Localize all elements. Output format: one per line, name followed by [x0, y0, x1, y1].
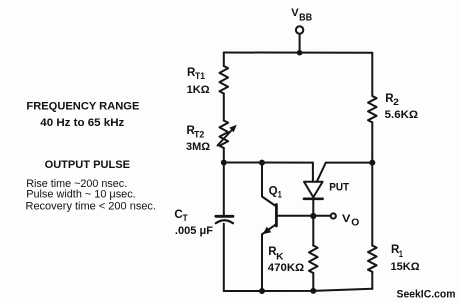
svg-text:.005 μF: .005 μF — [175, 225, 213, 237]
svg-text:BB: BB — [299, 13, 312, 24]
svg-text:V: V — [342, 213, 351, 225]
svg-text:Recovery time < 200 nsec.: Recovery time < 200 nsec. — [26, 201, 157, 213]
svg-text:2: 2 — [393, 97, 399, 107]
svg-text:O: O — [351, 217, 359, 228]
svg-text:470KΩ: 470KΩ — [268, 262, 305, 274]
svg-text:OUTPUT PULSE: OUTPUT PULSE — [45, 159, 131, 171]
svg-text:K: K — [276, 252, 284, 263]
svg-text:40 Hz to 65 kHz: 40 Hz to 65 kHz — [40, 117, 124, 129]
svg-text:T2: T2 — [194, 130, 204, 140]
svg-text:FREQUENCY RANGE: FREQUENCY RANGE — [26, 101, 140, 113]
svg-text:Q: Q — [269, 186, 278, 198]
svg-text:1KΩ: 1KΩ — [187, 84, 210, 96]
svg-text:1: 1 — [399, 249, 403, 259]
svg-text:1: 1 — [278, 190, 282, 200]
svg-text:15KΩ: 15KΩ — [391, 261, 420, 273]
svg-text:PUT: PUT — [329, 182, 349, 194]
svg-text:5.6KΩ: 5.6KΩ — [385, 109, 418, 121]
svg-text:T1: T1 — [195, 71, 205, 81]
svg-text:3MΩ: 3MΩ — [186, 141, 210, 153]
svg-text:Pulse width ~ 10 μsec.: Pulse width ~ 10 μsec. — [26, 189, 136, 201]
svg-text:C: C — [174, 209, 182, 221]
svg-text:SeekIC.com: SeekIC.com — [397, 289, 456, 301]
svg-text:T: T — [183, 213, 188, 223]
